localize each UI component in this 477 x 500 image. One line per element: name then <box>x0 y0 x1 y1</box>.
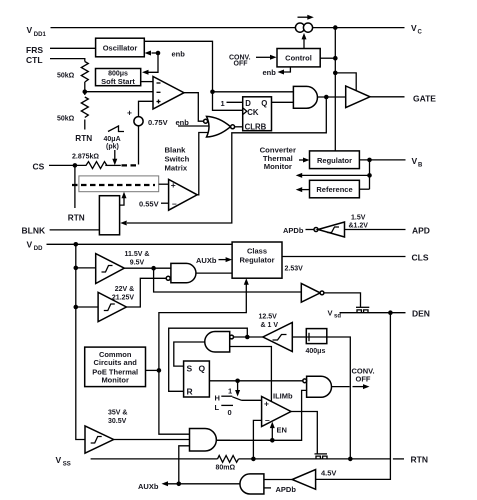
wire feedback arrow upper <box>296 173 370 178</box>
node UVLO2 tap <box>74 305 79 310</box>
svg-text:9.5V: 9.5V <box>130 259 145 266</box>
wire CTL to divider <box>50 59 85 62</box>
wire class reg enable arrow <box>244 278 249 292</box>
wire gate output <box>370 96 405 98</box>
svg-text:CLRB: CLRB <box>245 122 267 131</box>
svg-text:12.5V: 12.5V <box>259 313 278 320</box>
wire regulator to VB <box>359 159 405 161</box>
svg-text:22V &: 22V & <box>115 286 134 293</box>
svg-text:enb: enb <box>172 50 186 59</box>
svg-text:Monitor: Monitor <box>264 162 292 171</box>
node VC junction <box>333 25 338 30</box>
svg-text:40μA: 40μA <box>104 136 121 143</box>
wire UVLO enable run <box>154 268 302 292</box>
wire Q to conv nand <box>209 380 302 382</box>
svg-text:Reference: Reference <box>316 185 352 194</box>
wire auxb gate out <box>196 272 232 274</box>
svg-text:Q: Q <box>261 99 267 108</box>
flip-flop U-DFF <box>243 97 272 132</box>
wire control to current source <box>302 33 307 49</box>
wire rail to end <box>239 458 391 460</box>
svg-text:enb: enb <box>263 68 277 77</box>
wire schmitt1 out <box>124 267 171 269</box>
svg-text:Regulator: Regulator <box>317 156 352 165</box>
AND gate U-PWM <box>293 86 317 108</box>
node VB <box>367 158 372 163</box>
schmitt 35V <box>85 409 127 453</box>
svg-text:Regulator: Regulator <box>239 255 274 264</box>
schmitt 22V <box>98 286 134 322</box>
svg-text:Matrix: Matrix <box>165 164 188 173</box>
node CS <box>73 163 78 168</box>
svg-text:400μs: 400μs <box>306 348 326 355</box>
wire dashed switch CS <box>122 164 140 166</box>
node divider <box>83 89 88 94</box>
mux H1 L0 <box>215 381 262 417</box>
wire VDD <box>47 243 233 245</box>
svg-text:30.5V: 30.5V <box>108 418 127 425</box>
wire 4.5V comp to gate <box>264 479 292 481</box>
svg-text:OFF: OFF <box>234 61 249 68</box>
wire VDD1 to VC rail <box>51 27 405 29</box>
svg-text:RTN: RTN <box>68 214 85 223</box>
node Q <box>235 379 240 384</box>
wire blanking to matrix arrow <box>120 192 127 205</box>
wire ILIMb minus sense <box>253 420 261 459</box>
svg-text:V: V <box>328 309 333 318</box>
svg-text:0.75V: 0.75V <box>148 118 168 127</box>
wire 400us to RTN <box>327 337 351 459</box>
svg-text:4.5V: 4.5V <box>321 468 336 477</box>
wire APD <box>345 229 406 231</box>
wire reference arrow left <box>296 187 310 192</box>
node rail to gate driver <box>333 71 338 76</box>
wire comp to 400us <box>292 336 306 338</box>
svg-text:S: S <box>187 363 193 373</box>
class regulator block <box>232 242 282 278</box>
transistor discharge <box>315 454 328 459</box>
wire enb to NOR <box>178 125 209 127</box>
common circuits block <box>85 347 146 387</box>
wire set gate out to S <box>174 342 205 366</box>
svg-text:0: 0 <box>228 408 232 417</box>
svg-text:L: L <box>215 403 220 412</box>
svg-text:D: D <box>245 99 251 108</box>
svg-text:AUXb: AUXb <box>196 256 217 265</box>
node oscillator to AND <box>210 90 215 95</box>
svg-text:B: B <box>418 163 423 169</box>
inverter APD schmitt <box>306 222 345 237</box>
node common circuits <box>157 368 162 373</box>
wire enable to common net <box>159 292 246 434</box>
svg-text:RTN: RTN <box>75 134 92 143</box>
svg-text:21.25V: 21.25V <box>112 294 135 301</box>
svg-text:–: – <box>265 415 270 425</box>
control block U-CTRL <box>277 49 320 67</box>
wire main vertical rail VC to Regulator <box>334 28 336 151</box>
svg-text:RTN: RTN <box>411 455 428 465</box>
wire resistor to node <box>84 82 86 95</box>
pin RTN <box>393 455 428 465</box>
transistor Vsd <box>328 307 406 319</box>
wire EN run <box>216 390 306 440</box>
wire rail to gate driver top <box>335 73 356 91</box>
svg-text:C: C <box>418 29 423 35</box>
svg-text:Class: Class <box>247 246 267 255</box>
node 400us rtn <box>348 457 353 462</box>
wire reference right <box>359 188 369 190</box>
wire 0.55V comp to NOR <box>197 133 207 195</box>
wire hiccup to R loop <box>169 328 248 391</box>
wire control to rail <box>320 57 335 59</box>
svg-text:+: + <box>171 180 176 190</box>
svg-text:80mΩ: 80mΩ <box>216 465 236 472</box>
wire CS node to RTN <box>74 165 76 208</box>
svg-text:APDb: APDb <box>283 226 304 235</box>
label 0.55V <box>139 199 169 208</box>
svg-text:2.53V: 2.53V <box>285 265 304 272</box>
svg-text:V: V <box>27 240 33 250</box>
pin VB <box>412 156 424 169</box>
svg-text:1: 1 <box>228 387 232 396</box>
svg-text:&1.2V: &1.2V <box>349 223 369 230</box>
wire schmitt2 to nand <box>126 278 166 307</box>
wire CS to switch <box>105 164 120 166</box>
resistor 2.875k <box>72 153 107 168</box>
svg-text:35V &: 35V & <box>108 409 127 416</box>
wire comp out to set gate <box>234 336 263 338</box>
wire AND out <box>318 96 346 98</box>
blanking one-shot box <box>99 196 119 235</box>
resistor 50k upper <box>57 62 88 83</box>
svg-text:CS: CS <box>33 162 45 172</box>
svg-text:V: V <box>56 455 62 465</box>
wire auxb up <box>179 446 190 484</box>
wire enb to soft start <box>142 53 158 75</box>
svg-text:V: V <box>27 25 33 35</box>
wire PWM feedback to blanking <box>120 97 326 226</box>
svg-text:OFF: OFF <box>356 374 371 383</box>
wire 0.75V to error amp plus <box>139 101 154 116</box>
svg-text:Oscillator: Oscillator <box>103 43 138 52</box>
current source I1 <box>295 15 313 33</box>
svg-text:AUXb: AUXb <box>138 482 159 491</box>
svg-text:APD: APD <box>412 225 430 235</box>
svg-text:DD: DD <box>34 246 43 252</box>
wire conv off out <box>332 367 375 390</box>
wire dashed matrix bus <box>72 184 155 186</box>
svg-text:SS: SS <box>63 462 71 468</box>
svg-text:–: – <box>172 199 177 209</box>
wire CLS <box>282 256 406 258</box>
label AUXb arrow <box>196 256 232 265</box>
latch U-SR <box>184 361 210 397</box>
wire 0.75V to switch <box>138 126 140 165</box>
node control rail <box>333 56 338 61</box>
node EN <box>270 438 275 443</box>
wire and to EN <box>216 439 230 441</box>
label constant 1 <box>221 99 243 108</box>
svg-text:DEN: DEN <box>412 308 430 318</box>
wire inverter to fet gate <box>324 293 361 307</box>
wire oscillator output <box>144 41 242 110</box>
wire matrix to comparator <box>159 183 169 185</box>
svg-text:DD1: DD1 <box>34 32 47 38</box>
wire VB vertical <box>369 160 371 189</box>
pin VDD <box>27 240 44 253</box>
svg-text:CTL: CTL <box>26 55 43 65</box>
blank switch matrix outline <box>79 176 159 192</box>
AND gate APDb mirrored <box>240 474 264 494</box>
wire schmitt3 out <box>114 439 190 441</box>
wire FRS <box>50 47 96 49</box>
wire CS <box>49 164 84 166</box>
wire error amp out to NOR <box>184 93 204 122</box>
wire soft start to error amp <box>141 81 153 83</box>
svg-text:CK: CK <box>247 108 259 117</box>
pin VDD1 <box>27 25 47 38</box>
wire VSS RTN rail <box>91 458 218 460</box>
wire set gate input2 <box>230 347 272 402</box>
resistor 50k lower <box>57 97 88 123</box>
svg-text:Soft Start: Soft Start <box>101 77 135 86</box>
wire ILIMb out to discharge fet <box>291 412 317 454</box>
wire to schmitt2 <box>76 306 98 308</box>
svg-text:GATE: GATE <box>413 93 436 103</box>
svg-text:Control: Control <box>285 54 312 63</box>
node reference join <box>367 173 372 178</box>
node AND output <box>324 95 329 100</box>
svg-text:ILIMb: ILIMb <box>273 392 293 401</box>
soft start block <box>96 69 141 87</box>
svg-text:Monitor: Monitor <box>101 376 129 385</box>
node schmitt1 <box>151 266 156 271</box>
svg-text:H: H <box>215 394 220 403</box>
svg-text:Circuits and: Circuits and <box>94 358 138 367</box>
pin VSS <box>56 455 71 468</box>
wire BLNK <box>50 229 100 231</box>
NAND conv off <box>303 376 332 397</box>
comparator 0.55V <box>169 179 198 210</box>
resistor 80m <box>216 456 239 472</box>
node UVLO tap <box>74 266 79 271</box>
svg-text:sd: sd <box>334 314 341 320</box>
svg-text:+: + <box>127 108 132 118</box>
NOR gate U-NOR <box>204 116 235 137</box>
wire enb into oscillator <box>145 50 186 59</box>
set gate mirrored AND <box>205 332 234 353</box>
node DEN <box>388 310 393 315</box>
label converter thermal monitor <box>260 146 296 171</box>
wire VDD vertical <box>76 244 85 439</box>
svg-text:R: R <box>187 386 193 396</box>
label 1.5V 1.2V <box>349 215 369 230</box>
svg-text:& 1 V: & 1 V <box>261 322 279 329</box>
wire DEN sense vertical <box>316 313 391 480</box>
label blank switch matrix <box>165 145 190 172</box>
svg-text:Blank: Blank <box>165 145 187 154</box>
svg-text:Switch: Switch <box>165 154 190 163</box>
node sense <box>251 457 256 462</box>
label AUXb bottom <box>138 481 240 491</box>
svg-text:EN: EN <box>277 425 287 434</box>
svg-text:1: 1 <box>221 99 225 108</box>
wire to schmitt1 <box>76 267 96 269</box>
svg-text:FRS: FRS <box>26 45 43 55</box>
reference block <box>310 180 360 198</box>
svg-text:BLNK: BLNK <box>22 225 46 235</box>
regulator block <box>310 151 360 169</box>
comparator 4.5V <box>292 468 336 489</box>
comparator 12.5V <box>259 313 293 351</box>
svg-text:+: + <box>264 398 269 408</box>
svg-text:11.5V &: 11.5V & <box>125 251 150 258</box>
wire enb output of control <box>263 67 291 77</box>
label CONV OFF input <box>229 54 277 67</box>
comparator ILIMb <box>262 392 293 427</box>
svg-text:1.5V: 1.5V <box>351 215 366 222</box>
svg-text:V: V <box>411 23 417 33</box>
NAND AUXb gate <box>166 263 196 282</box>
svg-text:(pk): (pk) <box>106 143 119 150</box>
pin VC <box>411 23 423 36</box>
svg-text:50kΩ: 50kΩ <box>57 116 75 123</box>
svg-text:CLS: CLS <box>412 252 429 262</box>
AND gate enable <box>190 429 217 452</box>
wire EN arrow <box>270 422 287 441</box>
error amp <box>153 77 184 110</box>
reference 0.75V <box>127 108 189 128</box>
wire thermal to regulator <box>299 158 310 163</box>
svg-text:0.55V: 0.55V <box>139 199 159 208</box>
svg-text:50kΩ: 50kΩ <box>57 73 75 80</box>
schmitt 11.5V <box>96 251 150 284</box>
svg-text:2.875kΩ: 2.875kΩ <box>72 153 99 160</box>
oscillator block <box>96 38 145 57</box>
inverter DEN driver <box>301 284 324 303</box>
svg-text:Q: Q <box>199 363 206 373</box>
label APDb bottom <box>264 485 296 494</box>
wire common circuits out <box>146 369 159 371</box>
wire Q to AND <box>272 101 294 103</box>
wire to RTN label <box>84 120 86 130</box>
gate driver buffer <box>346 86 370 108</box>
wire divider node to error amp <box>85 91 153 93</box>
node hiccup <box>245 335 250 340</box>
wire osc node to AND gate <box>213 91 294 93</box>
node VDD <box>74 242 79 247</box>
one-shot 400us <box>306 329 327 355</box>
svg-text:V: V <box>412 156 418 166</box>
current source 40uA <box>104 126 125 165</box>
svg-text:APDb: APDb <box>276 485 297 494</box>
wire NOR to CLRB <box>235 126 243 128</box>
